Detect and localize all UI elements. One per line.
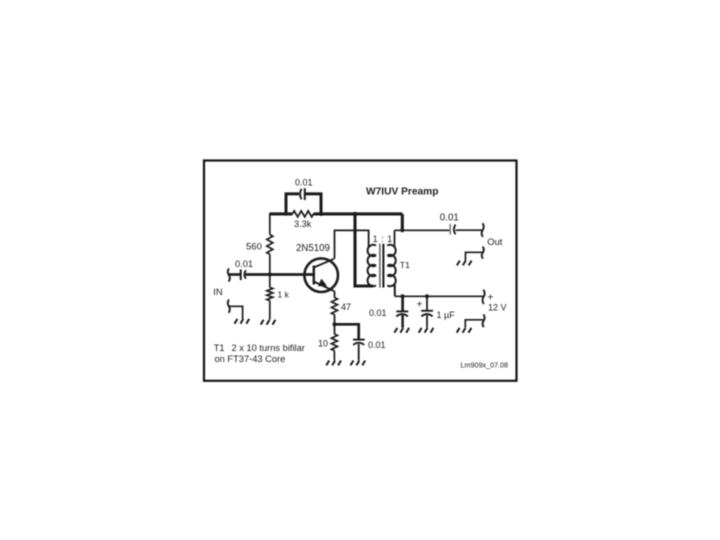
svg-text:2N5109: 2N5109 xyxy=(296,243,330,254)
ground under 1k xyxy=(261,320,276,325)
svg-text:IN: IN xyxy=(213,286,222,297)
transformer T1 secondary winding xyxy=(387,245,395,286)
svg-text:T1: T1 xyxy=(400,260,410,270)
capacitor 0.01 feedback xyxy=(300,189,301,200)
svg-text:47: 47 xyxy=(341,302,351,312)
svg-text:0.01: 0.01 xyxy=(368,340,386,350)
svg-text:T1: T1 xyxy=(214,343,225,353)
svg-text:Out: Out xyxy=(487,236,503,247)
ground under IN elbow xyxy=(235,319,250,324)
transformer T1 primary winding xyxy=(368,245,376,286)
wire 47 to junction xyxy=(334,315,336,334)
ground under 12V return xyxy=(457,328,472,333)
capacitor 0.01 input xyxy=(240,270,242,281)
transistor base bar xyxy=(313,266,315,285)
resistor 1k xyxy=(267,275,273,320)
svg-text:Lm909x_07.08: Lm909x_07.08 xyxy=(461,361,509,370)
wire secondary bottom lead to 12V line xyxy=(393,286,395,297)
svg-text:2 x 10 turns bifilar: 2 x 10 turns bifilar xyxy=(232,343,305,353)
wire rail right drop xyxy=(401,214,404,230)
svg-text:1 k: 1 k xyxy=(278,289,290,299)
wire junction to emitter cap xyxy=(335,324,359,339)
svg-text:on FT37-43 Core: on FT37-43 Core xyxy=(215,354,286,364)
svg-text:0.01: 0.01 xyxy=(440,212,459,223)
transformer core lines xyxy=(379,244,381,288)
resistor 47 xyxy=(332,298,338,315)
terminal Out ground tick xyxy=(482,247,484,259)
junction rail/loop left xyxy=(284,212,288,216)
capacitor 0.01 output xyxy=(449,224,451,235)
junction output node xyxy=(400,228,404,232)
schematic border frame xyxy=(204,161,517,381)
ground under 1uF xyxy=(419,328,434,333)
junction base/560/1k xyxy=(268,272,272,276)
wire to 1uF cap xyxy=(426,296,428,310)
terminal IN ground tick xyxy=(228,300,230,313)
wire input to cap xyxy=(229,273,241,276)
resistor 10 xyxy=(331,334,337,360)
ground under Out xyxy=(457,261,472,266)
svg-text:W7IUV Preamp: W7IUV Preamp xyxy=(366,186,438,197)
svg-text:1 : 1: 1 : 1 xyxy=(373,234,393,244)
svg-text:10: 10 xyxy=(318,338,328,348)
resistor 3.3k (feedback) xyxy=(293,211,314,217)
wire secondary top lead xyxy=(394,230,396,247)
wire collector to primary top xyxy=(335,230,369,258)
terminal Out tick xyxy=(482,223,484,237)
terminal 12V ground tick xyxy=(483,314,485,327)
wire rail left drop to 560 xyxy=(269,213,271,235)
svg-text:0.01: 0.01 xyxy=(369,308,387,318)
svg-text:0.01: 0.01 xyxy=(235,259,253,269)
junction emitter bypass xyxy=(332,322,336,326)
wire 560 to base line xyxy=(269,254,271,274)
transistor Q1 2N5109 circle xyxy=(304,258,338,292)
terminal +12V tick xyxy=(483,290,485,304)
wire 12V line xyxy=(395,295,483,297)
junction rail/primary box xyxy=(353,212,357,216)
resistor 560 xyxy=(267,235,273,255)
wire feedback loop xyxy=(286,194,321,214)
ground under emitter cap xyxy=(351,361,366,366)
terminal IN tick xyxy=(228,268,230,281)
ground under 10 xyxy=(326,361,341,366)
wire base line xyxy=(246,273,314,276)
wire to bypass cap xyxy=(401,296,404,311)
wire Out ground elbow xyxy=(466,252,483,260)
capacitor 1uF xyxy=(421,310,433,312)
junction rail/loop right xyxy=(319,212,323,216)
svg-text:0.01: 0.01 xyxy=(295,177,313,187)
svg-text:1 µF: 1 µF xyxy=(437,310,456,320)
junction 1uF xyxy=(425,294,429,298)
capacitor 0.01 emitter xyxy=(353,339,365,341)
wire 12V ground elbow xyxy=(465,320,483,328)
wire rail (V+ node) y=214 xyxy=(270,212,403,215)
capacitor 0.01 bypass xyxy=(396,310,408,312)
svg-text:3.3k: 3.3k xyxy=(294,219,312,229)
transistor collector diagonal xyxy=(314,259,334,268)
wire output cap to terminal xyxy=(456,229,483,231)
svg-text:+: + xyxy=(417,300,423,311)
wire primary box (rail to winding bottom) xyxy=(355,214,373,286)
transistor emitter arrow xyxy=(318,279,327,287)
svg-text:560: 560 xyxy=(246,242,262,253)
wire output line xyxy=(395,229,450,231)
wire emitter to 47 xyxy=(334,291,336,298)
transistor emitter diagonal xyxy=(314,282,334,292)
junction bypass cap 0.01 xyxy=(401,294,405,298)
wire IN ground elbow xyxy=(229,306,243,319)
ground under bypass cap xyxy=(394,328,409,333)
svg-text:12 V: 12 V xyxy=(488,302,507,312)
